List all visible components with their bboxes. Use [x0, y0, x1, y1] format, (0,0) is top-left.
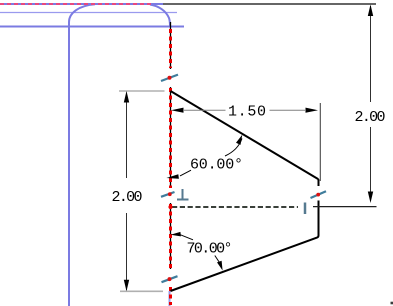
svg-text:1.50: 1.50 [228, 104, 266, 121]
perpendicular relation glyph [177, 189, 189, 200]
angle 70: leader to slant line [215, 256, 220, 264]
angle 60: leader arrow at slant [236, 135, 242, 145]
centerline red dash overlay segment 1 [169, 29, 172, 68]
svg-text:60.00°: 60.00° [190, 157, 243, 174]
dimension right 2.00: down arrow [368, 192, 373, 204]
angle 60: leader to centerline [180, 170, 191, 176]
dimension 1.50: left arrow [171, 108, 184, 113]
relation tick 1 on centerline [161, 75, 178, 81]
tick 2 red midpoint [168, 192, 172, 196]
sketch line: lower 70-degree slant [171, 236, 319, 292]
construction midline (dashed) [172, 206, 298, 208]
svg-text:2.00: 2.00 [112, 189, 143, 206]
tick 1 red midpoint [168, 76, 172, 80]
tick 3 red midpoint [168, 277, 172, 281]
angle 70: leader arrow at slant [217, 261, 223, 271]
extension line top (dark) for right 2.00 dimension [163, 3, 376, 5]
centerline black core segment 2 [170, 87, 172, 187]
centerline black core segment 3 [170, 203, 172, 269]
dimension left 2.00: top extension line [119, 90, 165, 92]
svg-text:70.00°: 70.00° [187, 241, 233, 258]
dimension right 2.00: upper dim line [370, 6, 372, 102]
sketch line: right vertical edge lower segment [318, 201, 320, 236]
sketch line: right vertical edge upper segment [317, 179, 320, 186]
relation tick 3 on centerline [162, 276, 178, 282]
centerline red dash overlay segment 2 [169, 88, 172, 188]
model edge: lower horizontal line [0, 26, 184, 28]
model silhouette edge below sketch (lavender) [169, 291, 171, 306]
relation tick 4 on right edge [311, 191, 327, 198]
centerline black core segment 1 [170, 22, 172, 69]
vertical relation glyph at right edge [304, 203, 307, 215]
sketch line: upper 60-degree slant [171, 91, 319, 179]
tick 4 red midpoint [316, 193, 320, 197]
construction plane trace (magenta dashed) [0, 3, 152, 5]
dimension left 2.00: lower dim line [126, 213, 128, 290]
centerline red dash overlay segment 4 [169, 287, 172, 305]
dimension right 2.00: bottom extension line [313, 206, 377, 208]
model edge: top face line (blue) [0, 3, 163, 5]
midline endpoint (red) [168, 205, 172, 209]
dimension left 2.00: up arrow [124, 91, 129, 103]
relation tick 2 on centerline [161, 192, 175, 197]
angle 70: leader arrow at centerline [171, 232, 181, 237]
angle 70: leader to centerline [181, 235, 194, 240]
dimension 1.50: right arrow [306, 108, 319, 113]
model edge: thin inner line [0, 12, 177, 14]
dimension right 2.00: lower dim line [370, 127, 372, 201]
angle 60: curved leader to slant line [225, 139, 242, 157]
dimension 1.50: right extension line [319, 103, 321, 181]
model edge: left wall with dome fillet [69, 4, 95, 306]
angle 60: leader arrow at centerline [166, 174, 179, 179]
screen artifact bottom-right corner [391, 302, 393, 305]
svg-text:2.00: 2.00 [355, 109, 386, 126]
dimension left 2.00: down arrow [124, 280, 129, 292]
dimension left 2.00: upper dim line [126, 93, 128, 179]
model edge: dome right fillet [150, 5, 170, 27]
centerline red dash overlay segment 3 [169, 204, 172, 269]
dimension left 2.00: bottom extension line [120, 290, 163, 292]
dimension right 2.00: up arrow [368, 5, 373, 17]
dimension 1.50: right line segment [270, 109, 307, 111]
centerline black core segment 4 [170, 287, 172, 291]
dimension 1.50: left line segment [183, 109, 226, 111]
